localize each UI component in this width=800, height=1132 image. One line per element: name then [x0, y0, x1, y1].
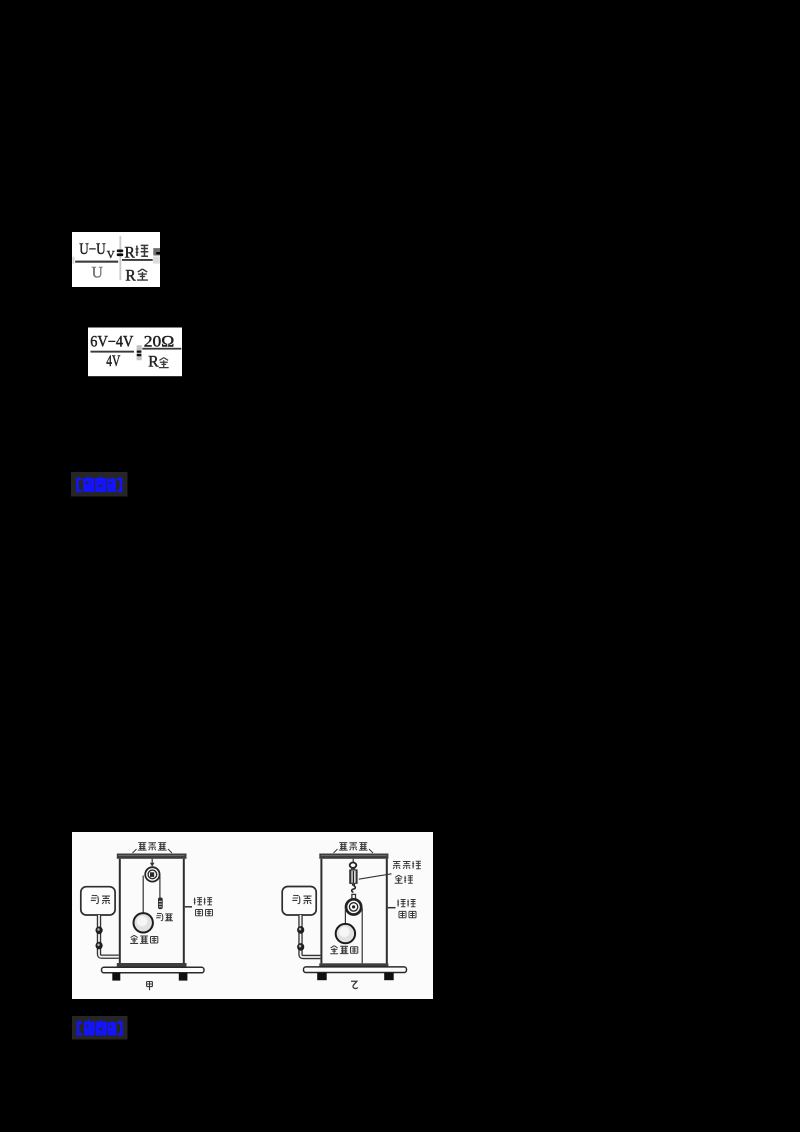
- svg-text:4V: 4V: [106, 353, 121, 370]
- svg-text:V: V: [107, 249, 115, 261]
- svg-text:U−U: U−U: [79, 241, 106, 258]
- svg-text:R: R: [148, 354, 159, 371]
- svg-text:R: R: [125, 267, 136, 284]
- svg-text:20Ω: 20Ω: [144, 333, 175, 350]
- svg-text:U: U: [92, 265, 103, 282]
- svg-text:6V−4V: 6V−4V: [90, 333, 134, 350]
